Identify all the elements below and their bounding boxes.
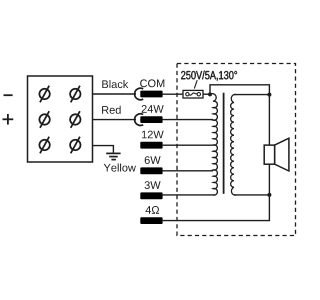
terminal screw xyxy=(70,137,80,154)
wire 12W tap xyxy=(163,144,213,146)
speaker LS1 xyxy=(264,138,289,171)
transformer T1 secondary xyxy=(231,103,234,188)
wire 3W to primary bottom xyxy=(163,194,215,196)
terminal screw xyxy=(39,137,49,154)
wire yellow xyxy=(93,146,114,153)
transformer T1 primary xyxy=(210,94,217,195)
connector 6W xyxy=(140,156,162,174)
transformer core xyxy=(223,93,225,194)
junction speaker top xyxy=(267,93,271,97)
label Black xyxy=(102,80,128,88)
junction primary top xyxy=(208,92,212,96)
connector COM xyxy=(135,79,165,99)
ground xyxy=(106,153,120,159)
wire black xyxy=(93,93,137,95)
terminal block TB1 xyxy=(28,76,93,162)
connector 4ohm xyxy=(140,206,162,224)
transformer T1 secondary bottom hook xyxy=(231,187,236,195)
transformer T1 secondary top hook xyxy=(231,94,236,102)
terminal screw xyxy=(39,111,49,128)
wire red xyxy=(93,119,137,121)
terminal screw xyxy=(70,111,80,128)
polarity plus xyxy=(3,114,14,125)
terminal screw xyxy=(39,86,49,103)
wire top rail xyxy=(210,85,269,145)
wire COM to fuse xyxy=(163,93,183,95)
label 250V/5A,130deg xyxy=(181,71,237,81)
wire 24W tap xyxy=(163,119,213,121)
connector 24W xyxy=(135,105,164,125)
terminal screw xyxy=(70,86,80,103)
junction speaker bottom xyxy=(267,193,271,197)
dashed enclosure xyxy=(177,64,296,236)
wire 6W tap xyxy=(163,170,213,172)
wire secondary bottom to speaker junction xyxy=(234,194,269,196)
connector 3W xyxy=(140,181,162,199)
wire 4ohm xyxy=(163,195,270,221)
wire speaker bottom xyxy=(268,164,270,195)
wire secondary top xyxy=(235,94,270,96)
label Yellow xyxy=(104,164,136,172)
fuse F1 xyxy=(183,90,210,98)
connector 12W xyxy=(140,131,163,149)
leader line xyxy=(194,80,197,88)
polarity minus xyxy=(4,94,13,96)
label Red xyxy=(102,106,121,114)
